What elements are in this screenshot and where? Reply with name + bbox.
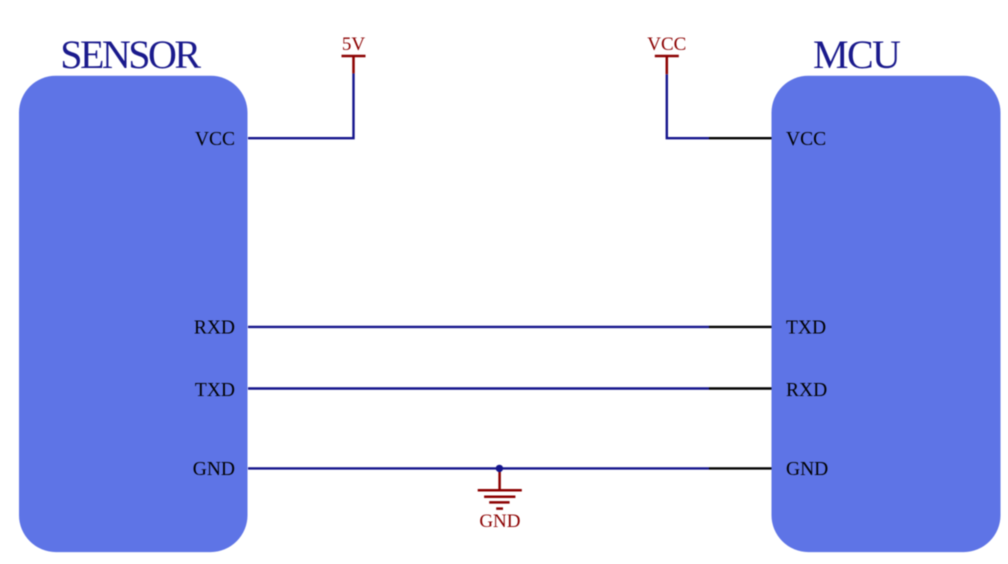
junction dot on GND net [496,465,503,472]
wire SENSOR.RXD to MCU.TXD [248,326,709,328]
wire SENSOR.VCC to 5V supply [248,73,354,138]
svg-text:MCU: MCU [813,32,901,77]
svg-text:GND: GND [786,459,828,480]
wire SENSOR.TXD to MCU.RXD [248,387,709,389]
svg-text:GND: GND [479,511,520,532]
svg-text:VCC: VCC [647,34,686,55]
svg-text:VCC: VCC [786,129,826,150]
ground symbol GND [478,468,522,508]
svg-text:5V: 5V [342,34,366,55]
svg-text:TXD: TXD [786,318,826,339]
pin lead MCU.VCC [709,137,772,139]
svg-text:RXD: RXD [194,318,235,339]
wire SENSOR.GND to MCU.GND [248,467,709,469]
svg-text:VCC: VCC [195,129,235,150]
IC body U1 SENSOR [19,76,248,552]
svg-text:RXD: RXD [786,380,827,401]
pin lead MCU.GND [709,467,772,469]
svg-text:TXD: TXD [195,380,235,401]
power symbol VCC [655,56,679,74]
pin lead MCU.TXD [709,326,772,328]
svg-text:SENSOR: SENSOR [60,32,201,77]
pin lead MCU.RXD [709,387,772,389]
wire MCU.VCC to VCC supply [667,74,709,138]
IC body U2 MCU [772,76,1001,552]
svg-text:GND: GND [193,459,235,480]
power symbol 5V [342,56,366,73]
